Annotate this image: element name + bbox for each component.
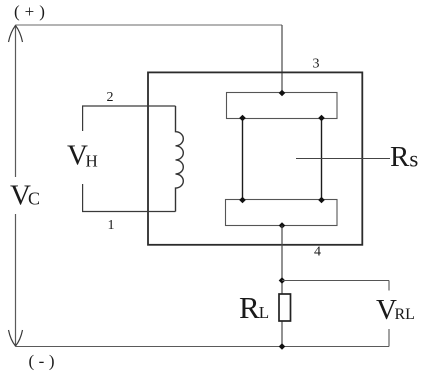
wire bridge right vertical	[321, 119, 323, 200]
source Vc rail (left vertical wire, lower segment)	[15, 214, 17, 347]
arrowhead down at Vc rail bottom	[9, 330, 23, 346]
junction node pin 3 top	[279, 90, 286, 97]
svg-text:Rs: Rs	[390, 141, 418, 173]
junction node top-left of bridge	[239, 115, 246, 122]
wire VH loop bottom (pin 1 lead)	[83, 184, 176, 212]
source Vc rail (left vertical wire, upper segment)	[15, 25, 17, 177]
wire VRL vertical lower segment	[388, 329, 390, 347]
wire bridge left vertical	[242, 119, 244, 200]
svg-text:1: 1	[108, 218, 115, 233]
leader line to Rs	[296, 158, 390, 160]
bridge bottom electrode rectangle	[226, 200, 338, 226]
wire top horizontal from Vc(+) to node 3	[16, 24, 283, 26]
svg-text:2: 2	[107, 90, 114, 105]
coil L (Hall element input coil)	[176, 106, 184, 212]
arrowhead up at Vc rail top	[9, 26, 23, 43]
resistor RL body	[279, 294, 291, 321]
svg-text:3: 3	[313, 57, 320, 72]
wire VH loop top (pin 2 lead)	[83, 106, 176, 131]
svg-text:(+): (+)	[14, 2, 50, 21]
junction node top-right of bridge	[318, 115, 325, 122]
wire branch to VRL	[282, 280, 389, 282]
junction node pin 4 bottom	[279, 222, 286, 229]
svg-text:(-): (-)	[29, 352, 59, 371]
junction node at RL branch	[279, 277, 286, 284]
wire bottom rail	[16, 346, 390, 348]
wire pin 4 vertical down to bottom rail	[281, 226, 283, 295]
bridge top electrode rectangle	[227, 93, 338, 119]
junction node on bottom rail	[279, 343, 286, 350]
junction node bottom-left of bridge	[239, 197, 246, 204]
Hall element outline box	[148, 72, 362, 244]
wire vertical drop to pin 3	[281, 25, 283, 93]
junction node bottom-right of bridge	[318, 197, 325, 204]
wire below resistor RL	[281, 321, 283, 347]
svg-text:4: 4	[314, 245, 321, 260]
wire VRL vertical upper segment	[388, 281, 390, 291]
